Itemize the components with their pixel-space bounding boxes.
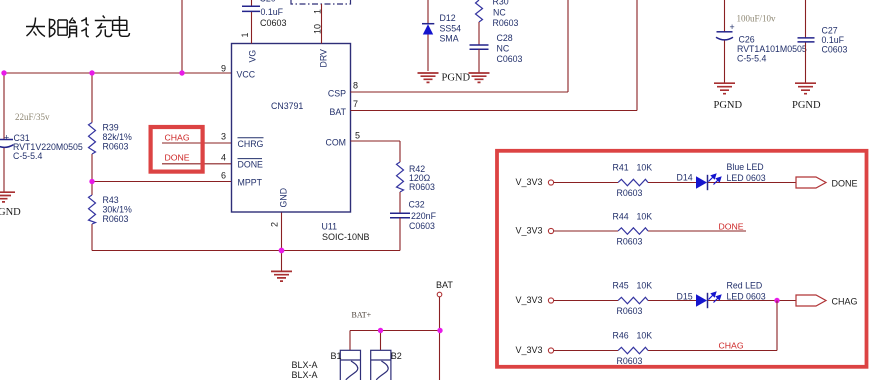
- capacitor C28: [470, 45, 489, 49]
- svg-text:B1: B1: [331, 351, 342, 361]
- power ground PGND (D12): [418, 73, 439, 82]
- wire: R42 to C32: [399, 192, 401, 213]
- wire row1: [554, 182, 796, 184]
- svg-text:NC: NC: [493, 8, 506, 18]
- capacitor C26: [724, 0, 726, 83]
- dashed module box: [291, 0, 351, 4]
- svg-text:R0603: R0603: [409, 182, 435, 192]
- svg-text:10K: 10K: [637, 162, 653, 172]
- resistor R39: [89, 123, 96, 155]
- wire row3: [554, 300, 796, 302]
- wire: CHRG net CHAG: [162, 142, 232, 144]
- ground GND left: [0, 192, 15, 202]
- wire: ground rail bottom: [92, 250, 400, 252]
- svg-text:MPPT: MPPT: [238, 178, 263, 188]
- svg-text:DRV: DRV: [319, 49, 329, 68]
- wire: vertical from top to VCC rail: [181, 0, 183, 73]
- svg-text:DONE: DONE: [238, 160, 264, 170]
- svg-text:LED 0603: LED 0603: [727, 173, 766, 183]
- svg-text:GND: GND: [279, 188, 289, 208]
- svg-text:VCC: VCC: [237, 70, 256, 80]
- svg-text:DONE: DONE: [719, 221, 744, 231]
- svg-text:R0603: R0603: [617, 356, 643, 366]
- svg-text:R0603: R0603: [103, 142, 129, 152]
- svg-text:C0603: C0603: [822, 45, 848, 55]
- svg-text:C26: C26: [739, 35, 755, 45]
- svg-text:C-5-5.4: C-5-5.4: [737, 54, 766, 64]
- power ground (C28): [469, 73, 490, 82]
- svg-text:7: 7: [353, 99, 358, 109]
- resistor R46: [618, 347, 648, 354]
- diode D12: [427, 0, 429, 71]
- svg-text:BLX-A: BLX-A: [292, 360, 318, 370]
- svg-text:C0603: C0603: [260, 18, 287, 28]
- wire: BAT net: [351, 0, 638, 111]
- red highlight box CHAG/DONE: [151, 127, 203, 172]
- svg-text:82k/1%: 82k/1%: [103, 132, 133, 142]
- svg-text:10K: 10K: [637, 280, 653, 290]
- svg-text:PGND: PGND: [442, 73, 471, 84]
- svg-text:COM: COM: [325, 138, 346, 148]
- wire: C31 bottom lead to GND: [3, 148, 5, 192]
- svg-text:SOIC-10NB: SOIC-10NB: [322, 232, 370, 242]
- svg-text:V_3V3: V_3V3: [516, 345, 543, 355]
- svg-text:BAT: BAT: [330, 107, 347, 117]
- svg-text:R0603: R0603: [617, 236, 643, 246]
- svg-text:NC: NC: [497, 44, 510, 54]
- svg-text:0.1uF: 0.1uF: [822, 35, 845, 45]
- svg-text:CHAG: CHAG: [165, 132, 190, 142]
- svg-text:R41: R41: [613, 162, 629, 172]
- resistor R43: [89, 195, 96, 224]
- svg-text:V_3V3: V_3V3: [516, 177, 543, 187]
- svg-text:2: 2: [270, 222, 280, 227]
- power ground (C26): [714, 83, 735, 94]
- svg-text:SS54: SS54: [440, 23, 462, 33]
- svg-text:VG: VG: [248, 50, 258, 63]
- wire: R43 bottom lead: [91, 224, 93, 251]
- capacitor C32: [390, 213, 410, 218]
- svg-text:U11: U11: [322, 222, 338, 232]
- svg-text:BAT: BAT: [436, 280, 453, 290]
- svg-text:SMA: SMA: [440, 34, 459, 44]
- wire: COM net: [351, 141, 401, 162]
- wire: CSP net: [351, 0, 569, 92]
- svg-text:R44: R44: [613, 212, 629, 222]
- svg-text:3: 3: [221, 132, 226, 142]
- junction dot: [89, 179, 94, 184]
- resistor R42: [397, 162, 404, 192]
- title 太阳能充电: [26, 16, 130, 38]
- svg-text:22uF/35v: 22uF/35v: [15, 112, 50, 122]
- red highlight box LED block: [497, 151, 867, 367]
- wire row4: [554, 301, 777, 351]
- wire: R30 to C28: [478, 22, 480, 45]
- svg-text:R0603: R0603: [493, 18, 519, 28]
- svg-text:C27: C27: [822, 26, 838, 36]
- wire: VG pin lead: [251, 0, 253, 44]
- battery connector B1: [340, 350, 360, 380]
- svg-text:CHAG: CHAG: [832, 296, 858, 306]
- svg-text:PGND: PGND: [714, 100, 743, 111]
- wire: C28 to ground: [478, 49, 480, 73]
- svg-text:C28: C28: [497, 33, 513, 43]
- battery connector B2: [371, 350, 391, 380]
- svg-text:C0603: C0603: [409, 221, 435, 231]
- output port DONE: [796, 177, 826, 188]
- resistor R45: [618, 297, 648, 304]
- svg-text:R46: R46: [613, 330, 629, 340]
- svg-text:CSP: CSP: [328, 89, 346, 99]
- svg-text:B2: B2: [391, 351, 402, 361]
- wire: chip GND stub: [281, 212, 283, 271]
- op chip U11 CN3791: [232, 44, 351, 213]
- wire: C31 top lead: [3, 73, 5, 140]
- junction dot: [279, 248, 285, 254]
- junction dot: [437, 328, 442, 333]
- svg-text:R0603: R0603: [103, 214, 129, 224]
- svg-text:V_3V3: V_3V3: [516, 295, 543, 305]
- capacitor C31: [0, 139, 13, 141]
- wire: main VCC rail: [4, 72, 232, 74]
- svg-text:BLX-A: BLX-A: [292, 370, 318, 380]
- junction dot row3: [774, 298, 779, 303]
- resistor R41: [618, 179, 648, 186]
- svg-text:D14: D14: [677, 173, 693, 183]
- svg-text:CHRG: CHRG: [238, 139, 264, 149]
- svg-text:+: +: [730, 22, 735, 32]
- svg-text:R30: R30: [493, 0, 509, 6]
- wire: BAT down to batteries: [439, 297, 441, 380]
- svg-text:R43: R43: [103, 195, 119, 205]
- wire: C32 to ground rail: [399, 218, 401, 251]
- svg-text:D12: D12: [440, 13, 456, 23]
- wire: R39 bottom to R43 top through MPPT junction: [91, 154, 93, 195]
- wire: MPPT net: [92, 181, 232, 183]
- resistor R30 NC: [476, 0, 483, 22]
- wire: R39 top lead: [91, 73, 93, 123]
- svg-text:C20: C20: [260, 0, 276, 4]
- svg-text:5: 5: [355, 131, 360, 141]
- svg-text:R0603: R0603: [617, 306, 643, 316]
- junction dot: [1, 70, 6, 75]
- svg-text:R39: R39: [103, 123, 119, 133]
- svg-text:PGND: PGND: [792, 100, 821, 111]
- capacitor C20 0.1uF: [242, 6, 260, 11]
- svg-text:GND: GND: [0, 207, 21, 218]
- capacitor C27: [805, 0, 807, 83]
- junction dot: [179, 70, 184, 75]
- power ground (C27): [795, 83, 816, 94]
- wire: BAT+ branch: [350, 331, 440, 351]
- svg-text:Red LED: Red LED: [727, 280, 763, 290]
- svg-text:CHAG: CHAG: [719, 340, 744, 350]
- svg-text:V_3V3: V_3V3: [516, 226, 543, 236]
- svg-text:DONE: DONE: [165, 152, 190, 162]
- svg-text:10K: 10K: [637, 330, 653, 340]
- svg-text:220nF: 220nF: [411, 211, 437, 221]
- wire: DRV pin lead: [321, 4, 323, 44]
- output port CHAG: [796, 295, 826, 306]
- svg-text:9: 9: [221, 64, 226, 74]
- svg-text:LED 0603: LED 0603: [727, 291, 766, 301]
- svg-text:Blue LED: Blue LED: [727, 162, 764, 172]
- svg-text:100uF/10v: 100uF/10v: [737, 14, 777, 24]
- svg-text:R45: R45: [613, 280, 629, 290]
- wire: DONE net: [162, 163, 232, 165]
- svg-text:1: 1: [240, 32, 250, 37]
- svg-text:6: 6: [221, 170, 226, 180]
- svg-text:CN3791: CN3791: [271, 101, 303, 111]
- resistor R44: [618, 228, 648, 235]
- svg-text:+: +: [4, 133, 9, 143]
- svg-text:DONE: DONE: [832, 178, 858, 188]
- svg-text:RVT1A101M0505: RVT1A101M0505: [737, 44, 807, 54]
- svg-text:10K: 10K: [637, 212, 653, 222]
- svg-text:C0603: C0603: [497, 54, 523, 64]
- svg-text:C32: C32: [409, 200, 425, 210]
- svg-text:4: 4: [221, 152, 226, 162]
- svg-text:0.1uF: 0.1uF: [261, 7, 284, 17]
- svg-text:D15: D15: [677, 291, 693, 301]
- ground below chip: [271, 271, 292, 281]
- junction dot: [89, 70, 94, 75]
- svg-text:C-5-5.4: C-5-5.4: [13, 151, 42, 161]
- wire row2: [554, 230, 746, 232]
- svg-text:BAT+: BAT+: [352, 311, 372, 320]
- junction dot: [378, 328, 383, 333]
- svg-text:R0603: R0603: [617, 188, 643, 198]
- svg-text:8: 8: [353, 81, 358, 91]
- svg-text:30k/1%: 30k/1%: [103, 205, 133, 215]
